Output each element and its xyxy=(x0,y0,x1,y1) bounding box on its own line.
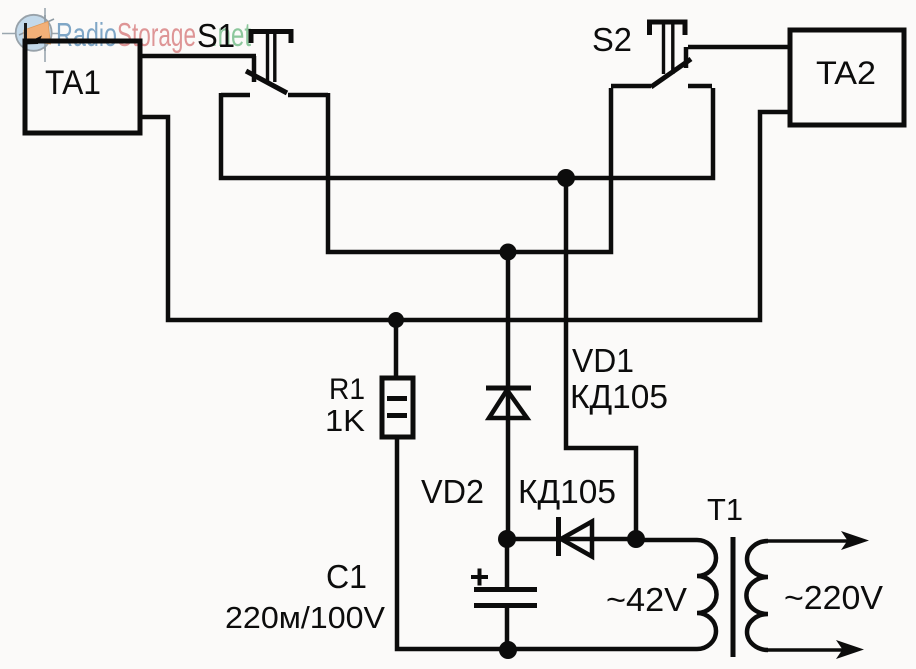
node F junction dot xyxy=(499,641,517,659)
svg-text:C1: C1 xyxy=(326,558,367,595)
svg-text:TA1: TA1 xyxy=(45,64,101,102)
svg-text:~220V: ~220V xyxy=(784,579,883,616)
transformer T1 primary winding xyxy=(636,540,717,649)
svg-text:TA2: TA2 xyxy=(816,55,876,91)
switch S2 xyxy=(611,22,712,87)
secondary output wire top with arrow xyxy=(768,539,858,543)
diode VD1 xyxy=(486,388,531,418)
wire TA2 to S2 common xyxy=(686,47,790,68)
svg-text:1K: 1K xyxy=(325,403,365,438)
secondary output wire bottom with arrow xyxy=(768,648,853,652)
node A junction dot xyxy=(557,169,575,187)
wire net S1-left to S2-right rail y=178 xyxy=(221,88,713,178)
diode VD2 xyxy=(559,517,593,557)
svg-text:220м/100V: 220м/100V xyxy=(225,600,385,635)
capacitor C1 xyxy=(471,539,537,650)
wire branch from node B down through VD1 xyxy=(506,252,511,539)
svg-text:~42V: ~42V xyxy=(606,581,687,618)
wire net S1-right to S2-left rail y=252 xyxy=(328,88,611,252)
node B junction dot xyxy=(500,244,517,261)
node C junction dot xyxy=(388,312,404,328)
transformer T1 secondary winding xyxy=(746,541,768,650)
watermark logo crosshair xyxy=(2,8,58,62)
svg-text:VD2: VD2 xyxy=(421,473,484,510)
transformer T1 core xyxy=(731,537,736,657)
wire branch from node A down to diode VD2 anode riser xyxy=(566,178,636,539)
svg-text:КД105: КД105 xyxy=(570,378,668,415)
svg-text:S2: S2 xyxy=(592,21,632,58)
resistor R1 xyxy=(382,378,413,437)
block TA1 xyxy=(25,41,140,133)
wire net rectifier row y=539 xyxy=(507,537,636,542)
switch S1 xyxy=(221,31,328,95)
svg-text:VD1: VD1 xyxy=(572,342,634,379)
svg-text:КД105: КД105 xyxy=(518,473,616,510)
svg-text:T1: T1 xyxy=(707,492,743,527)
wire TA1 to S1 common xyxy=(140,56,256,82)
svg-text:S1: S1 xyxy=(197,17,235,54)
watermark logo globe xyxy=(16,15,54,51)
node D junction dot xyxy=(498,530,516,548)
wire net TA1-bottom to TA2-bottom rail y=320 xyxy=(140,112,790,320)
node E junction dot xyxy=(627,530,645,548)
block TA2 xyxy=(790,30,904,125)
svg-text:R1: R1 xyxy=(329,373,365,406)
wire branch from node C down to R1 xyxy=(394,320,399,378)
wire bottom rail y=649 xyxy=(397,437,697,649)
